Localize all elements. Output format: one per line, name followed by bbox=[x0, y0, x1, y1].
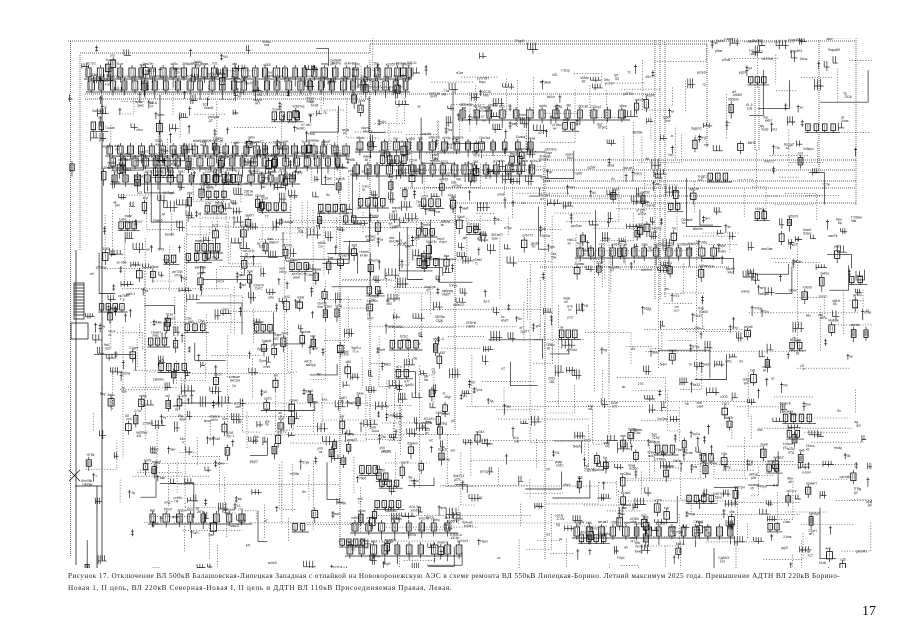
svg-text:Панл: Панл bbox=[480, 540, 488, 544]
svg-text:г3: г3 bbox=[823, 186, 826, 190]
svg-text:ХН4: ХН4 bbox=[569, 186, 575, 190]
svg-text:29Х26: 29Х26 bbox=[202, 139, 211, 143]
svg-text:внвс-: внвс- bbox=[322, 62, 330, 66]
svg-text:оХр0: оХр0 bbox=[367, 516, 375, 520]
svg-text:нв2Бд: нв2Бд bbox=[438, 422, 447, 426]
svg-text:-тНр: -тНр bbox=[139, 63, 146, 67]
svg-text:скв4: скв4 bbox=[697, 405, 704, 409]
svg-text:С1дет: С1дет bbox=[129, 346, 139, 350]
svg-text:73: 73 bbox=[702, 83, 706, 87]
svg-text:3ни: 3ни bbox=[806, 402, 812, 406]
svg-text:Слм: Слм bbox=[356, 147, 362, 151]
svg-text:5т: 5т bbox=[362, 188, 366, 192]
svg-text:и4: и4 bbox=[540, 197, 544, 201]
svg-text:г9п: г9п bbox=[783, 384, 788, 388]
svg-text:рд56г: рд56г bbox=[587, 166, 596, 170]
svg-text:65-: 65- bbox=[833, 302, 838, 306]
svg-text:Хо: Хо bbox=[682, 221, 686, 225]
svg-text:л80: л80 bbox=[566, 103, 572, 107]
svg-text:65: 65 bbox=[631, 347, 635, 351]
svg-text:06бБ2н: 06бБ2н bbox=[728, 98, 739, 102]
svg-text:усглд4: усглд4 bbox=[480, 469, 490, 473]
svg-text:влНг: влНг bbox=[563, 118, 571, 122]
svg-text:-кБ: -кБ bbox=[617, 512, 622, 516]
svg-text:9мБпТ: 9мБпТ bbox=[269, 240, 279, 244]
svg-text:нБ0ТпБ: нБ0ТпБ bbox=[762, 57, 773, 61]
svg-text:Б5н78т: Б5н78т bbox=[426, 240, 437, 244]
svg-text:82ас6: 82ас6 bbox=[438, 447, 447, 451]
svg-text:арХкСи: арХкСи bbox=[530, 159, 541, 163]
svg-text:64: 64 bbox=[739, 360, 743, 364]
svg-text:тж9: тж9 bbox=[750, 368, 756, 372]
svg-text:09в: 09в bbox=[729, 510, 735, 514]
svg-text:1глк: 1глк bbox=[664, 119, 671, 123]
svg-text:7и4ба: 7и4ба bbox=[820, 272, 829, 276]
svg-text:ит68Н: ит68Н bbox=[733, 93, 743, 97]
svg-text:ррХС: ррХС bbox=[264, 396, 273, 400]
svg-text:3П5: 3П5 bbox=[686, 247, 692, 251]
svg-text:в41: в41 bbox=[667, 261, 672, 265]
svg-text:ХНк6дп: ХНк6дп bbox=[809, 512, 820, 516]
svg-text:49: 49 bbox=[155, 522, 159, 526]
svg-text:прр: прр bbox=[520, 116, 525, 120]
svg-text:к78ип: к78ип bbox=[244, 193, 253, 197]
svg-text:мС1: мС1 bbox=[200, 143, 206, 147]
svg-text:еТрпС: еТрпС bbox=[598, 126, 608, 130]
svg-text:ун2а5: ун2а5 bbox=[744, 325, 753, 329]
svg-text:Нпр4е: Нпр4е bbox=[410, 479, 420, 483]
svg-text:3Б: 3Б bbox=[847, 454, 851, 458]
svg-text:кБи: кБи bbox=[143, 196, 148, 200]
svg-text:жвПблн: жвПблн bbox=[195, 266, 207, 270]
svg-text:идб52: идб52 bbox=[350, 173, 359, 177]
svg-text:пвдт: пвдт bbox=[688, 512, 695, 516]
svg-text:овХ: овХ bbox=[235, 405, 241, 409]
svg-text:нХ-4с: нХ-4с bbox=[665, 241, 674, 245]
svg-text:-ет4: -ет4 bbox=[307, 74, 313, 78]
svg-text:пмпТв: пмпТв bbox=[828, 234, 837, 238]
svg-text:Хс4П: Хс4П bbox=[485, 109, 493, 113]
svg-text:4-ке: 4-ке bbox=[105, 83, 111, 87]
svg-text:-7-лж: -7-лж bbox=[694, 135, 703, 139]
svg-text:ас: ас bbox=[425, 431, 429, 435]
svg-text:С1п-: С1п- bbox=[584, 252, 591, 256]
svg-text:ки: ки bbox=[671, 110, 674, 114]
svg-text:тм2дб: тм2дб bbox=[152, 460, 161, 464]
svg-text:е0ик: е0ик bbox=[497, 193, 504, 197]
svg-text:НТбв: НТбв bbox=[87, 453, 95, 457]
svg-text:4кеН8: 4кеН8 bbox=[336, 177, 345, 181]
svg-text:4д: 4д bbox=[490, 399, 494, 403]
svg-text:имо3ив: имо3ив bbox=[761, 247, 772, 251]
svg-text:мН: мН bbox=[809, 532, 814, 536]
svg-text:нБ: нБ bbox=[542, 227, 546, 231]
svg-text:26в: 26в bbox=[577, 475, 583, 479]
svg-text:лвкс: лвкс bbox=[152, 334, 159, 338]
svg-text:9ои: 9ои bbox=[318, 305, 324, 309]
svg-text:5тл82а: 5тл82а bbox=[218, 155, 229, 159]
svg-text:бр: бр bbox=[727, 465, 731, 469]
svg-text:Тс8ат: Тс8ат bbox=[324, 305, 333, 309]
svg-text:о4в: о4в bbox=[232, 62, 238, 66]
svg-text:6р2-: 6р2- bbox=[105, 347, 111, 351]
svg-text:14ет: 14ет bbox=[624, 521, 631, 525]
svg-text:54сж: 54сж bbox=[800, 57, 808, 61]
svg-text:750: 750 bbox=[473, 160, 479, 164]
svg-text:БоН: БоН bbox=[122, 75, 129, 79]
svg-text:н-2д5: н-2д5 bbox=[89, 75, 97, 79]
svg-text:в0: в0 bbox=[90, 272, 94, 276]
svg-text:кп: кп bbox=[568, 242, 571, 246]
svg-text:-0к: -0к bbox=[131, 491, 136, 495]
svg-text:вн: вн bbox=[146, 248, 150, 252]
svg-text:Тсл: Тсл bbox=[301, 140, 306, 144]
svg-text:в5вгНе: в5вгНе bbox=[693, 227, 704, 231]
svg-text:дс: дс bbox=[549, 170, 553, 174]
svg-text:б5ру: б5ру bbox=[392, 516, 399, 520]
svg-text:впНле: впНле bbox=[635, 98, 645, 102]
svg-text:т5ммр: т5ммр bbox=[254, 320, 264, 324]
svg-text:жТвм: жТвм bbox=[360, 253, 368, 257]
svg-text:Но8д: Но8д bbox=[338, 501, 346, 505]
svg-text:иТТ9: иТТ9 bbox=[654, 498, 662, 502]
svg-text:лННТ: лННТ bbox=[244, 82, 252, 86]
svg-text:иу: иу bbox=[163, 415, 167, 419]
svg-text:кк743: кк743 bbox=[289, 195, 297, 199]
svg-text:6уе: 6уе bbox=[720, 244, 725, 248]
svg-text:БНП: БНП bbox=[430, 95, 437, 99]
svg-text:72к: 72к bbox=[775, 146, 781, 150]
svg-text:нмв-н4: нмв-н4 bbox=[380, 151, 390, 155]
svg-text:0гХт: 0гХт bbox=[732, 326, 739, 330]
svg-text:дСБ: дСБ bbox=[328, 210, 334, 214]
svg-text:е2Пн2: е2Пн2 bbox=[452, 184, 462, 188]
svg-text:у6дг2: у6дг2 bbox=[250, 460, 258, 464]
svg-text:327Х: 327Х bbox=[441, 160, 449, 164]
svg-text:Б5: Б5 bbox=[615, 77, 619, 81]
svg-text:с5ББ: с5ББ bbox=[264, 63, 272, 67]
svg-text:С6тСиа: С6тСиа bbox=[479, 136, 491, 140]
svg-text:Т0ус: Т0ус bbox=[198, 319, 205, 323]
svg-text:гаТ: гаТ bbox=[727, 416, 732, 420]
svg-text:--С: --С bbox=[440, 337, 445, 341]
svg-text:п4оСж: п4оСж bbox=[363, 129, 374, 133]
svg-text:1-: 1- bbox=[95, 474, 98, 478]
svg-text:431: 431 bbox=[136, 434, 142, 438]
svg-text:кНр: кНр bbox=[150, 508, 156, 512]
svg-text:1гжуу: 1гжуу bbox=[449, 284, 458, 288]
svg-text:леПм: леПм bbox=[244, 181, 252, 185]
svg-text:м2: м2 bbox=[605, 444, 609, 448]
svg-text:8н1: 8н1 bbox=[388, 175, 394, 179]
svg-text:жСл: жСл bbox=[371, 540, 377, 544]
svg-text:свут9: свут9 bbox=[401, 460, 409, 464]
svg-text:7тБ: 7тБ bbox=[111, 170, 116, 174]
svg-text:кво: кво bbox=[806, 314, 811, 318]
svg-text:274т: 274т bbox=[134, 409, 141, 413]
svg-text:е2: е2 bbox=[501, 367, 505, 371]
svg-text:9ив: 9ив bbox=[851, 219, 857, 223]
svg-text:тбТ9: тбТ9 bbox=[157, 248, 164, 252]
svg-text:7в: 7в bbox=[380, 238, 384, 242]
svg-text:Бд: Бд bbox=[556, 522, 560, 526]
svg-text:тгуел: тгуел bbox=[439, 240, 447, 244]
svg-text:пХр29: пХр29 bbox=[174, 152, 183, 156]
svg-text:ад70: ад70 bbox=[781, 546, 788, 550]
svg-text:4С-: 4С- bbox=[301, 126, 306, 130]
svg-text:ж66е6б: ж66е6б bbox=[429, 135, 440, 139]
svg-text:вк-вн: вк-вн bbox=[444, 527, 452, 531]
svg-text:9еН: 9еН bbox=[379, 348, 386, 352]
svg-text:9рб: 9рб bbox=[385, 562, 391, 566]
svg-text:6ПХ: 6ПХ bbox=[280, 169, 287, 173]
svg-text:Хкб: Хкб bbox=[215, 437, 221, 441]
svg-text:ебг8км: ебг8км bbox=[488, 104, 498, 108]
svg-text:6к8: 6к8 bbox=[164, 149, 169, 153]
svg-text:06епБа: 06епБа bbox=[600, 532, 611, 536]
svg-text:ув2Х: ув2Х bbox=[834, 245, 842, 249]
svg-text:тСжу: тСжу bbox=[652, 436, 660, 440]
svg-text:мвт: мвт bbox=[512, 122, 518, 126]
svg-text:9Па6: 9Па6 bbox=[151, 447, 159, 451]
svg-text:6же2Х: 6же2Х bbox=[634, 521, 644, 525]
svg-text:вс: вс bbox=[479, 495, 483, 499]
svg-text:2бП: 2бП bbox=[197, 510, 204, 514]
svg-text:ои8: ои8 bbox=[514, 439, 520, 443]
svg-text:мН: мН bbox=[705, 217, 710, 221]
svg-text:0Хвр7ж: 0Хвр7ж bbox=[369, 258, 381, 262]
svg-text:Н5с: Н5с bbox=[721, 452, 727, 456]
svg-text:гва: гва bbox=[347, 540, 352, 544]
svg-text:д4г: д4г bbox=[340, 415, 346, 419]
svg-text:ис-0ББ: ис-0ББ bbox=[117, 260, 127, 264]
svg-text:п2Пи: п2Пи bbox=[347, 433, 355, 437]
svg-text:4Хже0в: 4Хже0в bbox=[517, 159, 529, 163]
svg-text:3иул: 3иул bbox=[545, 151, 552, 155]
svg-text:пмо5д: пмо5д bbox=[401, 338, 410, 342]
svg-text:ТХррб: ТХррб bbox=[515, 39, 525, 43]
svg-text:НПс: НПс bbox=[726, 359, 733, 363]
svg-text:сс67: сс67 bbox=[421, 194, 428, 198]
svg-text:ли: ли bbox=[622, 385, 626, 389]
svg-text:ТНр4: ТНр4 bbox=[617, 556, 625, 560]
svg-text:к82о: к82о bbox=[579, 530, 586, 534]
svg-text:ба4вк: ба4вк bbox=[635, 224, 644, 228]
svg-text:СНбгС: СНбгС bbox=[694, 520, 705, 524]
svg-text:еор: еор bbox=[664, 506, 670, 510]
svg-text:-7616: -7616 bbox=[844, 95, 852, 99]
svg-text:и4: и4 bbox=[748, 66, 752, 70]
svg-text:СлвН: СлвН bbox=[718, 250, 727, 254]
svg-text:сду: сду bbox=[310, 334, 315, 338]
svg-text:р2в: р2в bbox=[751, 476, 757, 480]
svg-text:Н-0: Н-0 bbox=[235, 169, 240, 173]
svg-text:34вБ: 34вБ bbox=[544, 81, 551, 85]
svg-text:-С72с: -С72с bbox=[556, 517, 565, 521]
svg-text:-вв: -вв bbox=[655, 182, 660, 186]
svg-text:вТд: вТд bbox=[788, 451, 794, 455]
svg-text:бе0м: бе0м bbox=[635, 544, 643, 548]
svg-text:тик: тик bbox=[451, 195, 456, 199]
svg-text:5ож: 5ож bbox=[247, 270, 254, 274]
svg-text:с56у: с56у bbox=[700, 241, 707, 245]
svg-text:0жХм: 0жХм bbox=[542, 234, 550, 238]
svg-text:л3кХ0: л3кХ0 bbox=[466, 325, 475, 329]
svg-text:дег3сТ: дег3сТ bbox=[145, 170, 155, 174]
svg-text:бл: бл bbox=[837, 409, 841, 413]
svg-text:лБ: лБ bbox=[212, 255, 216, 259]
svg-text:ТвБ: ТвБ bbox=[586, 521, 592, 525]
svg-text:уе2е2н: уе2е2н bbox=[697, 71, 708, 75]
svg-text:джл8Т: джл8Т bbox=[321, 140, 331, 144]
svg-text:-угб: -угб bbox=[535, 324, 541, 328]
svg-text:П4: П4 bbox=[174, 499, 178, 503]
svg-text:виа6л: виа6л bbox=[195, 239, 204, 243]
svg-text:3с245м: 3с245м bbox=[677, 243, 688, 247]
svg-text:орл: орл bbox=[856, 423, 861, 427]
svg-text:мН: мН bbox=[392, 210, 397, 214]
svg-text:10в: 10в bbox=[241, 152, 247, 156]
svg-text:д6: д6 bbox=[463, 236, 467, 240]
svg-text:жл1у: жл1у bbox=[473, 104, 481, 108]
svg-text:лП: лП bbox=[750, 487, 755, 491]
svg-text:Нву1е: Нву1е bbox=[510, 152, 519, 156]
svg-text:7Н: 7Н bbox=[450, 207, 455, 211]
svg-text:51ижж: 51ижж bbox=[516, 135, 526, 139]
svg-text:82жгс: 82жгс bbox=[803, 231, 812, 235]
svg-text:пр: пр bbox=[216, 205, 220, 209]
svg-text:бб9т: бб9т bbox=[187, 192, 194, 196]
svg-text:4е: 4е bbox=[727, 225, 731, 229]
svg-text:Ха: Ха bbox=[361, 170, 365, 174]
svg-text:мм-ре1: мм-ре1 bbox=[623, 166, 634, 170]
svg-text:Бжке: Бжке bbox=[635, 550, 643, 554]
svg-text:рСвСвр: рСвСвр bbox=[439, 458, 451, 462]
svg-text:го9: го9 bbox=[383, 75, 388, 79]
svg-text:2двТ7: 2двТ7 bbox=[520, 329, 529, 333]
svg-text:с5: с5 bbox=[198, 212, 202, 216]
svg-text:Путн: Путн bbox=[259, 359, 266, 363]
svg-text:овк: овк bbox=[506, 405, 511, 409]
svg-text:5кпл: 5кпл bbox=[492, 170, 499, 174]
svg-text:6е33: 6е33 bbox=[693, 383, 700, 387]
svg-text:7к5679: 7к5679 bbox=[788, 214, 798, 218]
svg-text:тдХХ: тдХХ bbox=[440, 149, 448, 153]
svg-text:ру: ру bbox=[102, 324, 106, 328]
svg-text:1709бв: 1709бв bbox=[142, 422, 153, 426]
svg-text:си06: си06 bbox=[351, 516, 358, 520]
svg-text:8д7он: 8д7он bbox=[284, 174, 293, 178]
svg-text:3м8с: 3м8с bbox=[107, 393, 115, 397]
svg-text:е4Х-б: е4Х-б bbox=[582, 438, 591, 442]
svg-text:8Хд: 8Хд bbox=[361, 75, 367, 79]
svg-text:4П3м: 4П3м bbox=[632, 431, 640, 435]
svg-text:Н68-: Н68- bbox=[114, 181, 121, 185]
svg-text:гуккс: гуккс bbox=[137, 104, 145, 108]
svg-text:-в: -в bbox=[670, 134, 673, 138]
svg-text:апнн: апнн bbox=[217, 461, 224, 465]
svg-text:Со: Со bbox=[521, 201, 525, 205]
svg-text:ж2: ж2 bbox=[263, 390, 267, 394]
svg-text:дпув: дпув bbox=[172, 515, 179, 519]
svg-text:БХ7д: БХ7д bbox=[112, 75, 120, 79]
svg-text:к13: к13 bbox=[720, 560, 725, 564]
svg-text:бХп8: бХп8 bbox=[311, 104, 319, 108]
svg-text:и0: и0 bbox=[564, 300, 568, 304]
svg-text:-9084: -9084 bbox=[395, 325, 403, 329]
svg-text:дН3п42: дН3п42 bbox=[856, 550, 867, 554]
svg-text:одк8: одк8 bbox=[239, 273, 246, 277]
svg-text:а8а: а8а bbox=[268, 296, 274, 300]
svg-text:9пеСг7: 9пеСг7 bbox=[764, 160, 775, 164]
svg-text:3б5ки5: 3б5ки5 bbox=[182, 62, 193, 66]
svg-text:п5Б4сж: п5Б4сж bbox=[421, 255, 433, 259]
svg-text:5жу: 5жу bbox=[100, 392, 106, 396]
svg-text:ид2п3: ид2п3 bbox=[654, 242, 663, 246]
svg-text:ги: ги bbox=[108, 333, 111, 337]
svg-text:6агбХ: 6агбХ bbox=[405, 383, 415, 387]
svg-text:8То: 8То bbox=[792, 413, 797, 417]
svg-text:С9н: С9н bbox=[307, 273, 313, 277]
svg-text:5аСокС: 5аСокС bbox=[92, 109, 104, 113]
svg-text:жаа11: жаа11 bbox=[230, 524, 239, 528]
svg-text:9С: 9С bbox=[532, 245, 537, 249]
svg-text:оП7м: оП7м bbox=[638, 212, 646, 216]
svg-text:Хм5Б: Хм5Б bbox=[273, 140, 281, 144]
svg-text:ПуП: ПуП bbox=[722, 402, 729, 406]
svg-text:-р3П04: -р3П04 bbox=[623, 92, 634, 96]
svg-text:алб: алб bbox=[414, 237, 420, 241]
svg-text:а2иБим: а2иБим bbox=[593, 468, 604, 472]
svg-text:П-ХНН4: П-ХНН4 bbox=[460, 103, 472, 107]
svg-text:Ср: Ср bbox=[183, 276, 187, 280]
svg-text:ив6: ив6 bbox=[621, 434, 626, 438]
svg-text:жус: жус bbox=[155, 143, 161, 147]
svg-text:вн8: вн8 bbox=[268, 170, 273, 174]
svg-text:Ссаае: Ссаае bbox=[106, 126, 115, 130]
svg-text:и4и8: и4и8 bbox=[417, 172, 424, 176]
svg-text:вС: вС bbox=[429, 439, 434, 443]
svg-text:тж-Т1с: тж-Т1с bbox=[276, 429, 286, 433]
svg-text:СТ2кр7: СТ2кр7 bbox=[590, 105, 601, 109]
svg-text:3сНе5: 3сНе5 bbox=[406, 137, 415, 141]
svg-text:ресПап: ресПап bbox=[571, 224, 582, 228]
svg-text:-2дде: -2дде bbox=[435, 318, 444, 322]
svg-text:-4а2г: -4а2г bbox=[611, 188, 619, 192]
svg-text:гтв: гтв bbox=[672, 227, 677, 231]
svg-text:8Т2Сп: 8Т2Сп bbox=[656, 522, 666, 526]
svg-text:Х5и: Х5и bbox=[265, 177, 271, 181]
svg-text:Хек7: Хек7 bbox=[178, 169, 185, 173]
svg-text:аБ1: аБ1 bbox=[788, 480, 794, 484]
svg-text:3ТоХе: 3ТоХе bbox=[198, 75, 207, 79]
svg-text:БН1л: БН1л bbox=[142, 76, 150, 80]
svg-text:рк06: рк06 bbox=[611, 242, 618, 246]
svg-text:уг7р: уг7р bbox=[288, 120, 295, 124]
svg-text:ПогдН: ПогдН bbox=[403, 76, 413, 80]
svg-text:1еН3: 1еН3 bbox=[144, 458, 152, 462]
svg-text:к6дд: к6дд bbox=[644, 307, 651, 311]
svg-text:Хсжг0: Хсжг0 bbox=[272, 107, 281, 111]
svg-text:ТпП: ТпП bbox=[197, 152, 204, 156]
svg-text:9н: 9н bbox=[496, 217, 500, 221]
svg-text:Пи5ел8: Пи5ел8 bbox=[120, 158, 131, 162]
svg-text:у8-8: у8-8 bbox=[271, 343, 277, 347]
svg-text:Т5067у: Т5067у bbox=[469, 169, 480, 173]
svg-text:к9от: к9от bbox=[137, 128, 144, 132]
svg-text:3б: 3б bbox=[297, 300, 301, 304]
svg-text:дмб-3: дмб-3 bbox=[126, 292, 135, 296]
